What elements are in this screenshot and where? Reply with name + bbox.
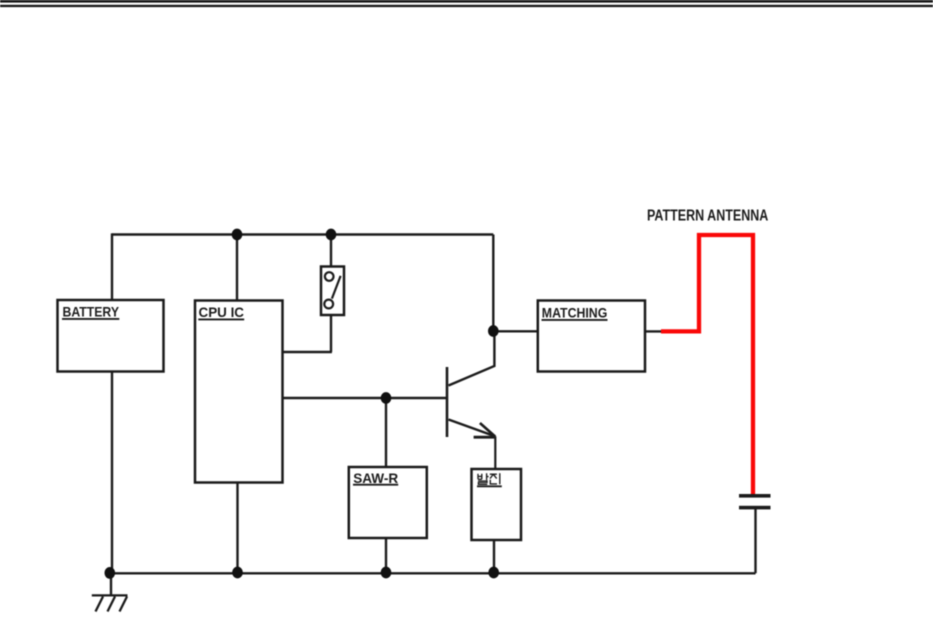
svg-text:SAW-R: SAW-R [353,470,398,486]
svg-text:PATTERN ANTENNA: PATTERN ANTENNA [647,207,769,224]
svg-text:MATCHING: MATCHING [542,304,608,320]
svg-text:BATTERY: BATTERY [63,303,120,319]
svg-text:CPU IC: CPU IC [199,304,245,320]
